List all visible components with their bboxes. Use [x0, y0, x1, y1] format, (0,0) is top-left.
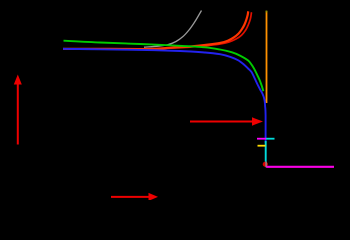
yellow-green cap at top of orange line [265, 11, 267, 13]
yellow tick [258, 145, 266, 147]
red y-axis arrow (left, pointing up) [14, 75, 22, 145]
red critical point dot [263, 162, 268, 167]
green curve [64, 41, 264, 91]
gray curve [144, 11, 202, 48]
red curve (second strand, inner) [63, 12, 252, 49]
magenta tick (left of vertical line) [257, 138, 266, 140]
red arrow pointing at critical line (middle right) [190, 117, 263, 125]
red x-axis arrow (bottom, pointing right) [111, 193, 158, 201]
cyan tick (right of vertical line) [266, 138, 275, 140]
magenta horizontal line (T &gt; Tc branch) [266, 166, 334, 168]
orange vertical asymptote line [266, 11, 268, 103]
cyan vertical segment below blue curve [265, 141, 267, 162]
gray streak through dot [265, 162, 267, 168]
red curve (main strand, outer) [63, 11, 248, 49]
blue curve [63, 49, 266, 143]
